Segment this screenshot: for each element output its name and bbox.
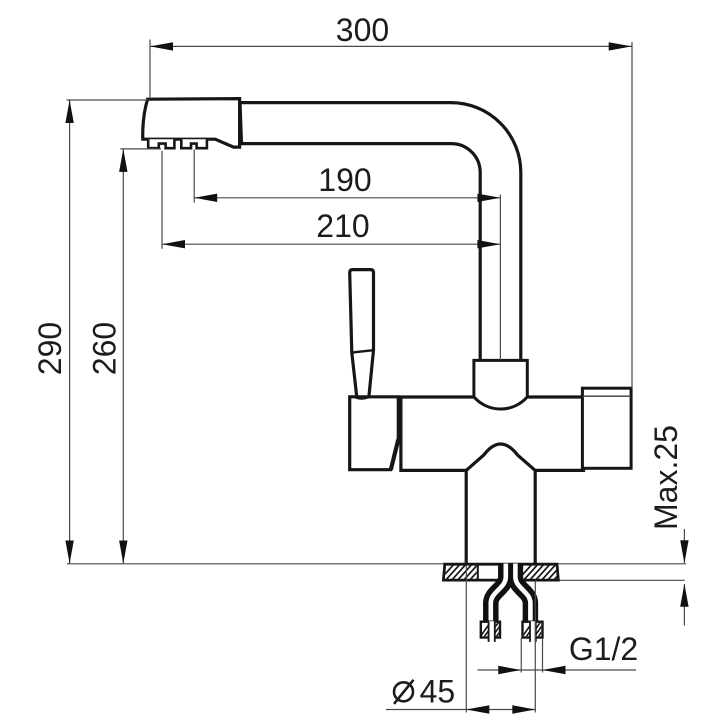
dimension G1/2 [478,631,639,674]
right valve cap [582,388,631,468]
handle cartridge housing [350,397,399,470]
left hose core [491,564,506,623]
left hose nut [478,620,512,642]
dimension 260 [87,149,162,564]
svg-text:G1/2: G1/2 [569,631,638,667]
svg-text:45: 45 [420,673,456,709]
svg-text:260: 260 [87,322,123,375]
right hose nut [520,620,554,642]
counter/deck line [67,563,686,565]
shank right wall [534,470,537,564]
dimension 300 [150,12,632,388]
svg-text:Max.25: Max.25 [648,425,684,530]
flange hatching right [516,562,576,582]
right supply hose [515,564,530,623]
dimension 290 [32,100,148,564]
flange inner boundary lines [478,564,522,580]
svg-text:210: 210 [316,208,369,244]
lever handle [350,270,374,399]
dimension Max.25 [648,425,689,626]
shank left wall [465,470,468,564]
flange hatching left [438,562,498,582]
svg-text:290: 290 [32,322,68,375]
right hose core [515,564,530,623]
dimension diameter 45 [386,565,535,714]
spout tube with elbow and downpipe [240,103,521,361]
dimension 210 [162,151,500,249]
dimension 190 [194,150,500,361]
aerator nozzle block 2 [181,139,207,148]
svg-text:190: 190 [318,162,371,198]
left supply hose [491,564,506,623]
aerator nozzle block 1 [148,139,174,148]
svg-text:300: 300 [336,12,389,48]
mounting flange bar [443,564,558,580]
spout head [143,99,240,148]
deck thickness line right (flange bottom extension) [556,579,685,581]
main body [401,397,584,470]
connector between downpipe and body [474,360,527,409]
